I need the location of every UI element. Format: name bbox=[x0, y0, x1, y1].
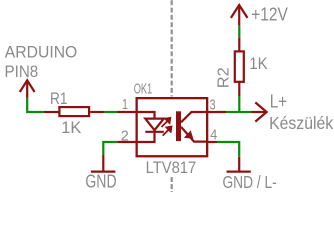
svg-text:1K: 1K bbox=[61, 118, 81, 137]
LED inside OK1 bbox=[138, 112, 164, 142]
svg-text:R2: R2 bbox=[216, 67, 233, 88]
svg-text:OK1: OK1 bbox=[134, 82, 153, 98]
svg-text:4: 4 bbox=[210, 127, 217, 143]
dashed separator line (top segment) bbox=[171, 0, 173, 96]
dashed separator line (bottom segment) bbox=[171, 177, 173, 192]
svg-text:ARDUINO: ARDUINO bbox=[5, 42, 78, 61]
wire R2 bottom pin bbox=[238, 82, 240, 96]
svg-text:R1: R1 bbox=[50, 89, 67, 108]
wire net pin2 to GND bbox=[103, 142, 117, 155]
wire net R2 to junction bbox=[238, 96, 240, 112]
supply arrow +12V bbox=[231, 5, 248, 26]
wire junction to output bbox=[239, 111, 251, 113]
wire net +12V to R2 bbox=[238, 26, 240, 38]
svg-text:L+: L+ bbox=[270, 91, 287, 111]
wire pin 3 of OK1 bbox=[208, 111, 227, 113]
phototransistor base bar bbox=[176, 111, 181, 141]
svg-text:GND / L-: GND / L- bbox=[223, 172, 277, 192]
supply arrow ARDUINO PIN8 bbox=[20, 80, 35, 97]
wire pin 1 of OK1 bbox=[118, 111, 138, 113]
svg-text:PIN8: PIN8 bbox=[5, 62, 39, 81]
phototransistor collector bbox=[181, 112, 207, 122]
svg-text:3: 3 bbox=[210, 98, 216, 114]
ground GND / L- (right) bbox=[227, 157, 251, 172]
svg-text:1K: 1K bbox=[249, 54, 268, 73]
wire pin 4 of OK1 bbox=[208, 141, 218, 143]
phototransistor emitter with arrow bbox=[181, 127, 207, 142]
wire net from arrow to R1 bbox=[27, 98, 44, 113]
wire R1 left pin bbox=[44, 111, 59, 113]
wire net R1 to pin1 bbox=[104, 111, 118, 113]
ground GND (left) bbox=[91, 155, 116, 172]
wire R2 top pin bbox=[238, 37, 240, 51]
svg-text:GND: GND bbox=[85, 171, 116, 192]
output arrow L+ bbox=[252, 102, 267, 121]
wire net pin3 to junction bbox=[226, 111, 239, 113]
light arrow 1 bbox=[162, 118, 171, 127]
wire R1 right pin bbox=[90, 111, 104, 113]
wire net pin4 to GND bbox=[217, 142, 239, 157]
wire pin 2 of OK1 bbox=[117, 141, 137, 143]
resistor R1 bbox=[59, 107, 89, 116]
light arrow 2 bbox=[163, 127, 172, 136]
svg-text:2: 2 bbox=[121, 128, 129, 144]
svg-text:LTV817: LTV817 bbox=[146, 158, 197, 177]
svg-text:Készülék: Készülék bbox=[269, 113, 333, 133]
optocoupler OK1 box bbox=[137, 98, 208, 156]
svg-text:+12V: +12V bbox=[251, 5, 288, 25]
resistor R2 bbox=[235, 51, 244, 81]
svg-text:1: 1 bbox=[122, 97, 128, 113]
